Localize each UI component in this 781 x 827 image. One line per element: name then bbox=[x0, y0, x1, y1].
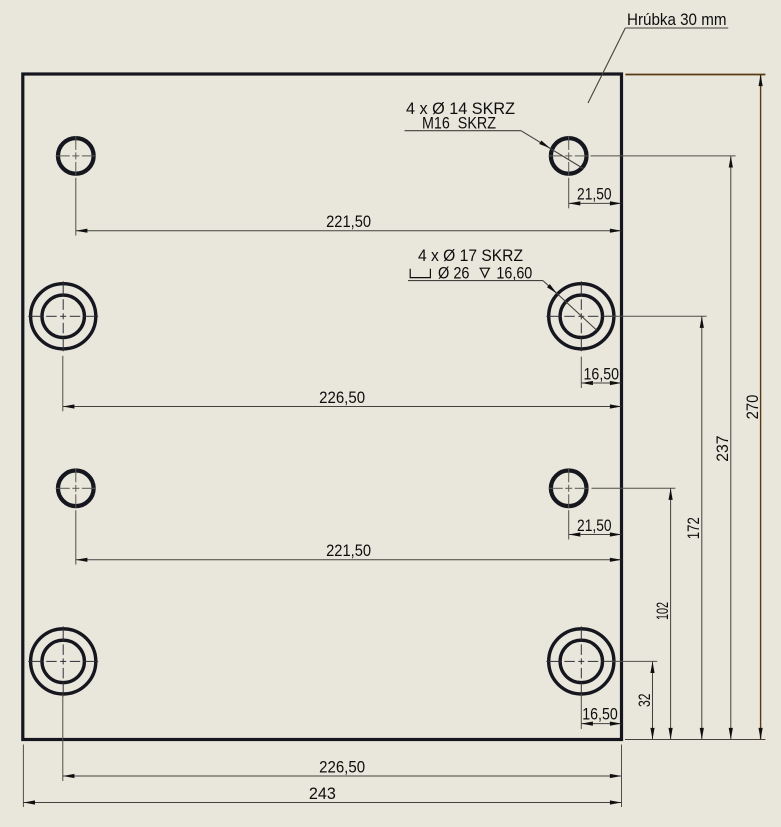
hole B3 counterbored bottom-left bbox=[31, 629, 96, 694]
hole B2 counterbored upper-right bbox=[549, 284, 614, 349]
common bottom extension line bbox=[625, 739, 765, 741]
leader for M16 callout bbox=[405, 131, 584, 169]
dimension 16,50 row2 (hole to edge) bbox=[581, 357, 621, 388]
note text Hrúbka 30 mm bbox=[627, 10, 727, 29]
svg-text:Ø 26: Ø 26 bbox=[438, 263, 470, 282]
svg-text:4 x Ø 17 SKRZ: 4 x Ø 17 SKRZ bbox=[418, 246, 523, 265]
callout text 4 x Ø 17 SKRZ bbox=[418, 246, 523, 265]
dimension 102 (row3 height) bbox=[592, 488, 676, 739]
depth symbol bbox=[479, 268, 490, 277]
hole A4 tapped M16 mid-right bbox=[549, 469, 588, 508]
dimension 32 (bottom row height) bbox=[604, 661, 657, 739]
svg-text:226,50: 226,50 bbox=[319, 757, 365, 776]
svg-text:102: 102 bbox=[653, 602, 672, 620]
leader for thickness note bbox=[588, 28, 728, 103]
svg-text:270: 270 bbox=[743, 395, 762, 420]
centermark hole B2 bbox=[546, 281, 616, 351]
counterbore symbol bbox=[410, 269, 430, 278]
hole A1 tapped M16 top-left bbox=[56, 137, 95, 176]
svg-text:32: 32 bbox=[635, 694, 654, 708]
svg-text:226,50: 226,50 bbox=[319, 388, 365, 407]
svg-text:M16 SKRZ: M16 SKRZ bbox=[422, 113, 496, 132]
dimension 221,50 (row3 hole to right edge) bbox=[76, 510, 622, 564]
svg-text:16,60: 16,60 bbox=[496, 263, 532, 282]
dimension 16,50 row4 (hole to edge) bbox=[581, 694, 621, 729]
callout text Ø 26 bbox=[438, 263, 470, 282]
svg-text:16,50: 16,50 bbox=[584, 364, 620, 383]
centermark hole B3 bbox=[28, 626, 98, 696]
centermark hole A2 bbox=[549, 136, 589, 176]
svg-text:21,50: 21,50 bbox=[577, 516, 612, 535]
dimension 221,50 (row1 hole to right edge) bbox=[76, 178, 622, 236]
hole A2 tapped M16 top-right bbox=[549, 137, 588, 176]
centermark hole A1 bbox=[56, 136, 96, 176]
svg-text:237: 237 bbox=[713, 435, 732, 461]
dimension 243 overall width bbox=[23, 745, 621, 808]
centermark hole B1 bbox=[28, 281, 98, 351]
hole B4 counterbored bottom-right bbox=[549, 629, 614, 694]
callout text 4 x Ø 14 SKRZ / M16 SKRZ bbox=[406, 99, 515, 133]
svg-text:16,50: 16,50 bbox=[582, 704, 618, 723]
leader for counterbore callout bbox=[408, 281, 597, 331]
svg-text:221,50: 221,50 bbox=[326, 212, 371, 231]
hole A3 tapped M16 mid-left bbox=[56, 469, 95, 508]
dimension 226,50 (row2 hole to right edge) bbox=[63, 356, 622, 412]
svg-text:243: 243 bbox=[309, 784, 336, 803]
dimension 21,50 row1 (hole to edge) bbox=[569, 178, 622, 209]
dimension 226,50 bottom (row4 hole to right edge) bbox=[63, 695, 622, 808]
centermark hole B4 bbox=[546, 626, 616, 696]
svg-text:Hrúbka 30 mm: Hrúbka 30 mm bbox=[627, 10, 727, 29]
svg-text:21,50: 21,50 bbox=[577, 185, 612, 204]
dimension 270 overall height (brown) bbox=[625, 75, 765, 740]
dimension 21,50 row3 (hole to edge) bbox=[569, 510, 622, 539]
plate outline (243 x 270 plate, thickness 30 mm) bbox=[23, 74, 622, 740]
svg-text:172: 172 bbox=[684, 517, 703, 539]
svg-text:221,50: 221,50 bbox=[326, 541, 371, 560]
dimension 172 (row2 height) bbox=[605, 316, 707, 739]
dimension 237 (row1 height) bbox=[591, 156, 736, 740]
centermark hole A4 bbox=[549, 468, 589, 508]
hole B1 counterbored upper-left bbox=[31, 284, 96, 349]
callout text 16,60 bbox=[496, 263, 532, 282]
centermark hole A3 bbox=[56, 468, 96, 508]
